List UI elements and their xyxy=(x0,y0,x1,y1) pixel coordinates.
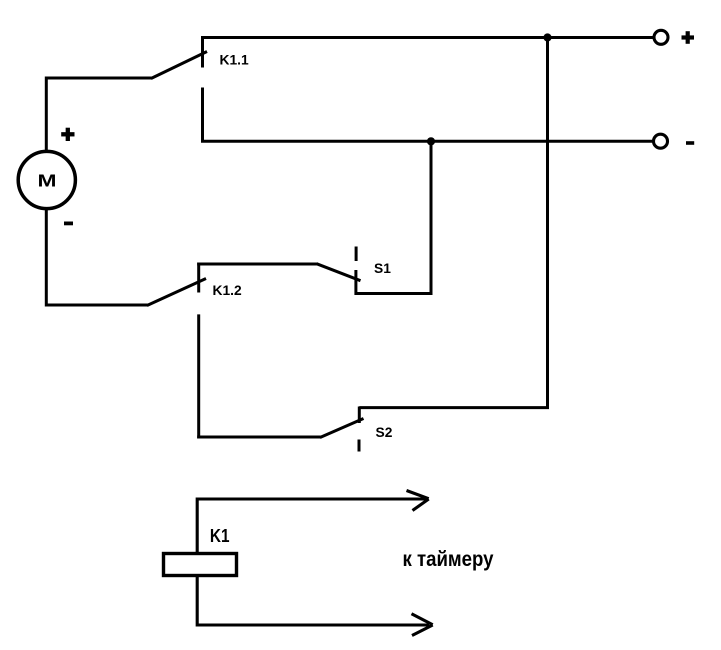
motor polarity label - xyxy=(64,221,73,225)
wire K1.2 to S1 blade xyxy=(197,263,317,266)
switch S1 blade xyxy=(317,264,361,281)
svg-text:K1.2: K1.2 xyxy=(213,283,242,298)
terminal + circle xyxy=(654,30,668,44)
node junction top xyxy=(543,33,551,41)
motor polarity label + xyxy=(61,128,74,141)
switch K1.2 stub lower xyxy=(197,314,200,438)
svg-text:S2: S2 xyxy=(376,425,393,440)
terminal - circle xyxy=(654,134,668,148)
switch S2 actuator dash xyxy=(358,440,361,452)
switch K1.2 stub upper xyxy=(197,263,200,293)
node junction mid xyxy=(427,137,435,145)
wire from mid junction down to S1 contact xyxy=(356,141,432,293)
svg-text:K1.1: K1.1 xyxy=(220,53,249,68)
switch K1.1 stub lower xyxy=(201,88,204,143)
svg-text:к таймеру: к таймеру xyxy=(403,548,494,571)
label + terminal xyxy=(682,31,695,44)
wire motor bottom to K1.2 blade pivot xyxy=(46,208,148,305)
switch S1 fixed contact xyxy=(354,270,357,295)
wire vertical from top junction down to S2 xyxy=(359,38,547,408)
wire relay branch bottom with arrow to timer xyxy=(197,576,433,636)
wire top rail + xyxy=(201,36,654,39)
switch S2 fixed contact stub xyxy=(358,407,361,424)
svg-text:K1: K1 xyxy=(210,526,230,546)
switch K1.2 blade xyxy=(147,279,206,306)
wire relay branch top with arrow to timer xyxy=(197,491,429,553)
wire motor top to K1.1 blade pivot xyxy=(46,78,152,152)
svg-text:S1: S1 xyxy=(374,261,391,276)
switch S1 actuator dash xyxy=(355,247,358,262)
switch K1.1 blade xyxy=(151,52,207,79)
wire K1.2 bottom to S2 blade xyxy=(197,436,321,439)
wire second rail - xyxy=(201,140,653,143)
switch S2 blade xyxy=(320,419,364,438)
svg-text:M: M xyxy=(38,170,57,190)
motor M1 circle xyxy=(18,151,75,208)
switch K1.1 fixed contact stub upper xyxy=(201,36,204,68)
label - terminal xyxy=(686,141,694,145)
relay coil K1 xyxy=(164,554,237,576)
